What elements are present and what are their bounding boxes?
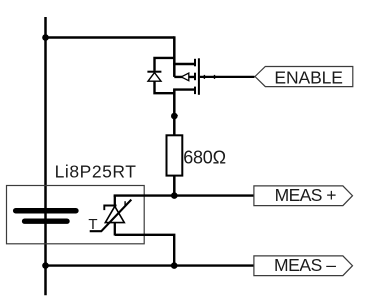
pin tick on gate wire (inner)	[203, 75, 205, 79]
wire: resistor bottom lead to MEAS+	[173, 176, 176, 196]
flag MEAS - outline	[254, 256, 353, 276]
pin tick right of drain junction	[174, 115, 178, 117]
thermistor RT1: cathode-style bar with bent left end	[104, 206, 116, 211]
transistor Q1: body arrow (points left, P-channel)	[181, 73, 189, 81]
transistor Q1: gate bar	[198, 58, 200, 95]
node: junction dot top-left	[42, 34, 49, 41]
wire: gate to ENABLE flag	[200, 76, 255, 78]
node: junction dot MEAS- at thermistor return	[171, 262, 178, 269]
thermistor RT1: top lead	[114, 196, 116, 207]
pin tick on gate wire (outer)	[214, 75, 216, 79]
node: junction dot at MEAS+	[171, 192, 178, 199]
node: junction dot at drain/resistor	[171, 113, 178, 120]
flag MEAS + outline	[254, 186, 353, 206]
svg-text:MEAS +: MEAS +	[275, 185, 337, 205]
thermistor RT1: diagonal strike with foot	[90, 200, 132, 232]
body diode D1: top link to source	[155, 58, 175, 71]
thermistor RT1: bottom lead	[114, 223, 116, 236]
svg-text:T: T	[88, 216, 97, 233]
transistor Q1: drain stub	[173, 88, 196, 90]
wire: vertical drop into MOSFET source/body	[173, 36, 176, 77]
transistor Q1: channel segment middle	[194, 73, 196, 81]
body diode D1: triangle	[148, 73, 161, 82]
svg-text:ENABLE: ENABLE	[274, 67, 342, 87]
resistor R1 body	[167, 135, 183, 175]
wire: drain down to resistor	[173, 90, 176, 136]
battery BT1 plate long (top)	[16, 208, 76, 214]
battery module box	[7, 186, 145, 244]
wire: MEAS- horizontal	[46, 264, 254, 266]
flag ENABLE outline	[255, 67, 353, 87]
svg-text:MEAS –: MEAS –	[274, 255, 336, 275]
node: junction dot MEAS- left	[42, 262, 49, 269]
wire: MEAS+ horizontal from thermistor to flag	[115, 196, 254, 197]
transistor Q1: channel segment top	[194, 59, 196, 67]
body diode D1: cathode bar	[147, 71, 161, 73]
transistor Q1: channel segment bottom	[194, 87, 196, 95]
thermistor RT1: pin tick on diagonal	[124, 201, 126, 205]
wire: top horizontal from rail to MOSFET source	[46, 36, 175, 39]
body diode D1: anode lead and bottom link to drain	[155, 81, 175, 93]
transistor Q1: body stub	[174, 76, 196, 78]
svg-text:680Ω: 680Ω	[183, 147, 226, 167]
thermistor RT1: triangle	[105, 206, 124, 222]
wire: thermistor bottom to MEAS- (L shape)	[115, 235, 174, 266]
svg-text:Li8P25RT: Li8P25RT	[55, 162, 137, 182]
battery BT1 plate short (bottom)	[25, 218, 67, 223]
transistor Q1: source stub	[173, 63, 196, 65]
wire: left battery rail (vertical)	[44, 17, 47, 295]
